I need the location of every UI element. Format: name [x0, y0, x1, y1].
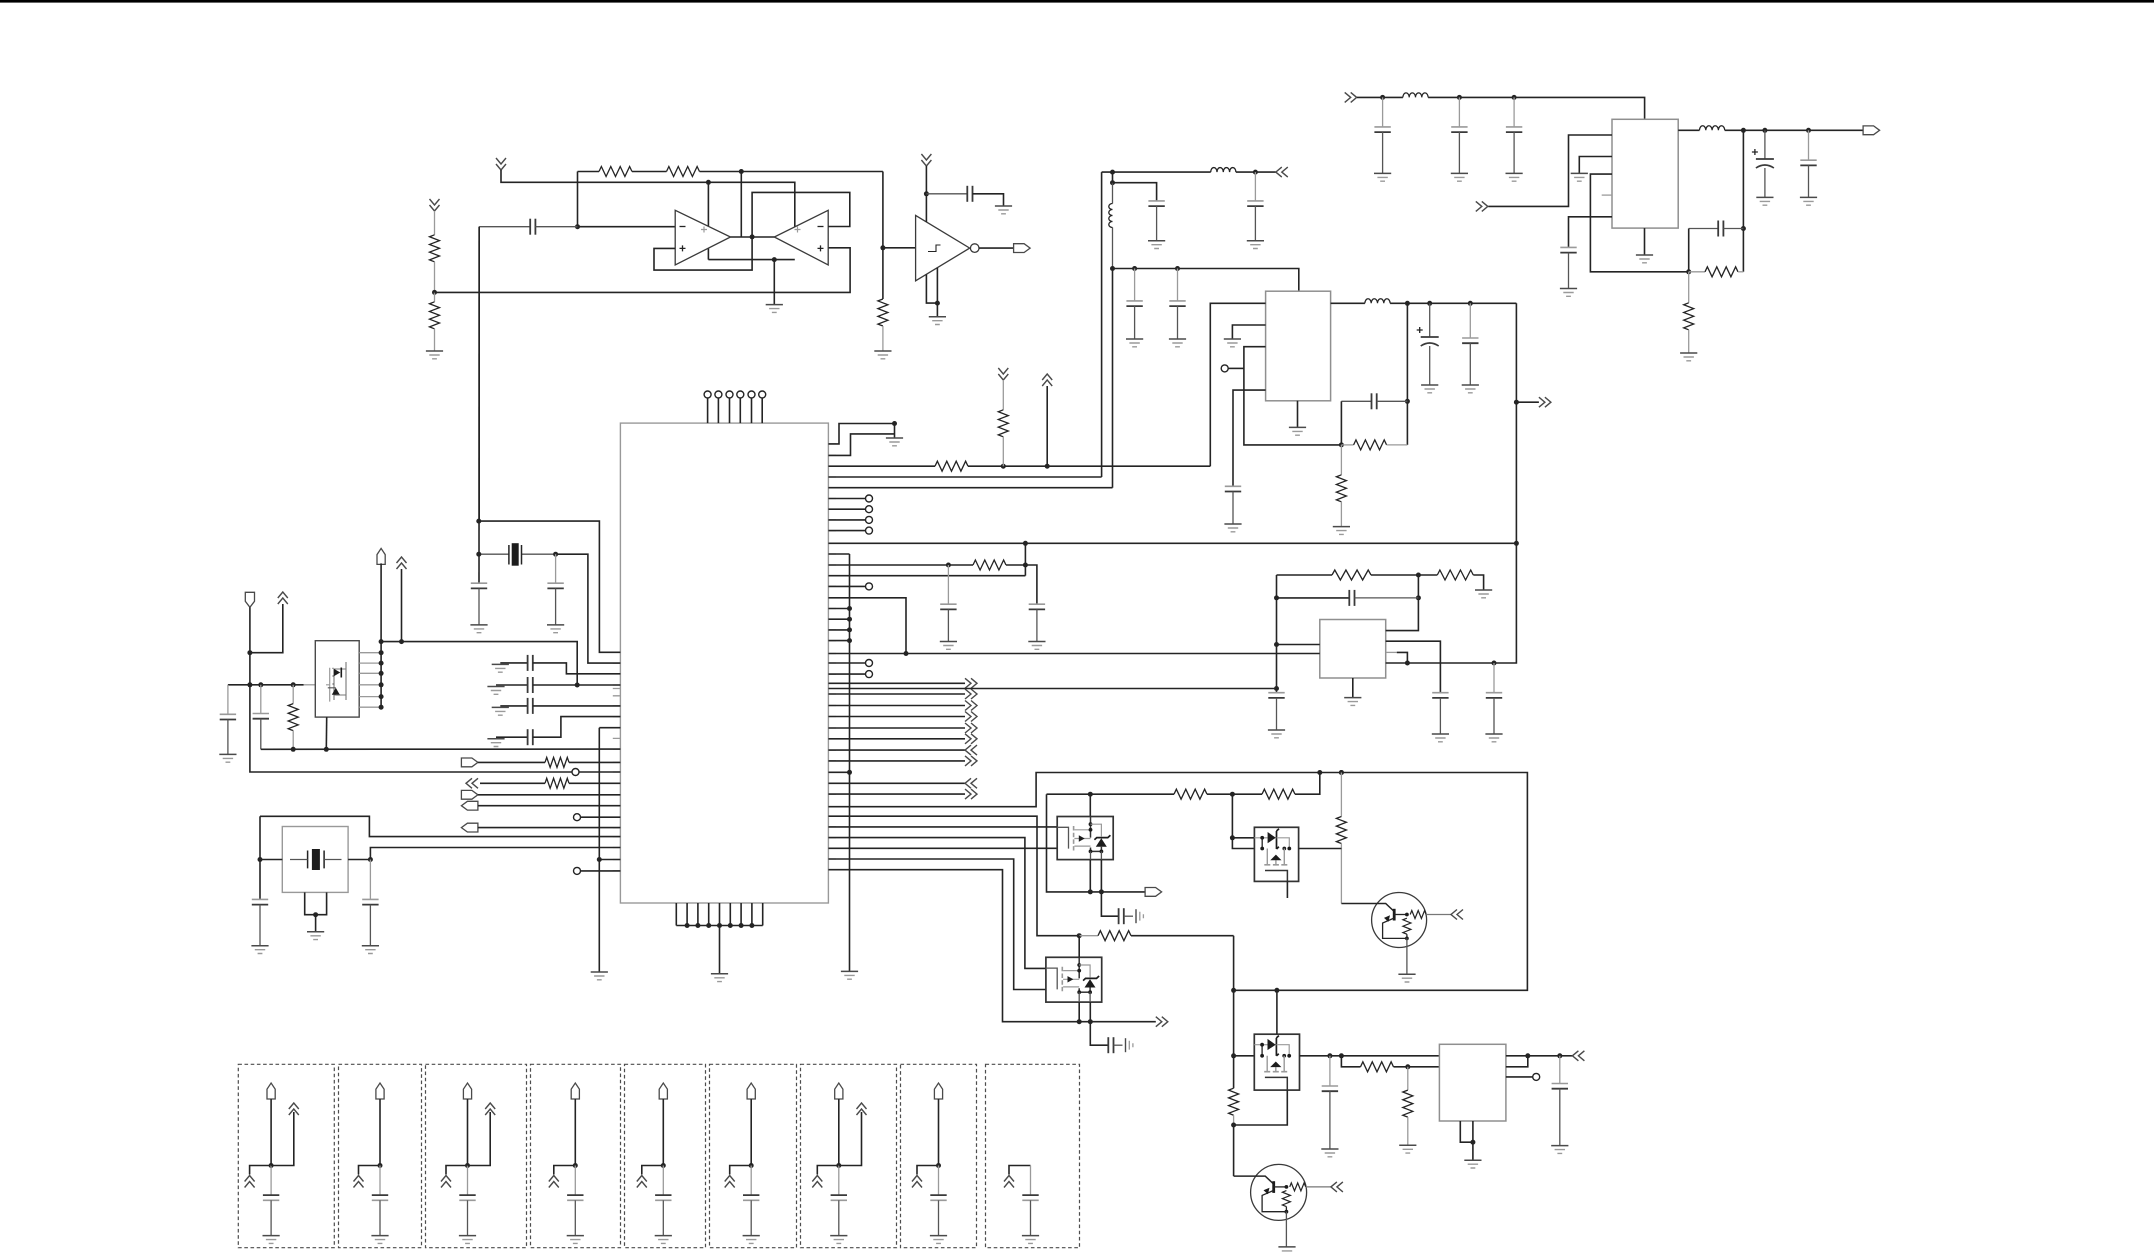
node mid rail [1110, 266, 1115, 271]
resistor R18 [292, 685, 294, 704]
resistor R4 (divider bottom) [434, 292, 436, 301]
connector chevron out 728 [965, 723, 977, 733]
node bus junction 608 [847, 606, 852, 611]
ground (C32) [219, 753, 236, 755]
node divider mid [432, 290, 437, 295]
node supply tap junction [706, 180, 711, 185]
wire U6 PG [1506, 1076, 1533, 1078]
node XTAL1 right [553, 552, 558, 557]
wire cell 5 stem [662, 1099, 664, 1166]
wire U2 signal chevron-in 783 [828, 782, 965, 784]
node Q3 feed junction [1230, 835, 1235, 840]
wire U2 top pin 5 [751, 398, 753, 423]
pin stubs U2 right side [828, 444, 836, 870]
capacitor cell 9 [1030, 1166, 1032, 1196]
connector chevron 1021 [1156, 1017, 1168, 1027]
resistor R21 [1340, 773, 1342, 817]
node Y2 case [313, 912, 318, 917]
decoupling cell box 3 (dashed) [426, 1064, 527, 1247]
ground (U3) [1289, 426, 1306, 428]
node gate row junctions [247, 682, 252, 687]
power symbol (Q1 area) [278, 592, 288, 604]
wire U2 top pin 2 [717, 398, 719, 423]
wire Q7 source join [1234, 1090, 1288, 1125]
node U3 VOUT junctions [1405, 301, 1410, 306]
pin U2 top 3 (open circle) [726, 391, 733, 398]
wire bypass row A [500, 662, 527, 664]
node reset row junctions [1001, 464, 1006, 469]
wire U2 signal chevron 683 [828, 682, 965, 684]
ground (Y2 case) [307, 931, 324, 933]
connector pin cell 7 [835, 1083, 843, 1099]
wire C15 to gnd [1429, 346, 1431, 385]
resistor R23 [1361, 1062, 1394, 1072]
connector VIN (chevron in) [1345, 92, 1357, 102]
wire cell 1 stem [270, 1099, 272, 1166]
node R23/R24 junction [1405, 1064, 1410, 1069]
wire Q2 top feed [1089, 794, 1091, 816]
wire R17 to U2 [569, 782, 620, 784]
wire VBUS stem + bus [380, 563, 382, 707]
node B junction (cap to opamp input) [575, 224, 580, 229]
wire U3 pin2 to ground [1232, 325, 1265, 339]
connector pin cell 8 [934, 1083, 942, 1099]
ground (C21) [1268, 729, 1285, 731]
wire R14 right [1006, 564, 1025, 566]
wire cell 9 power branch [1009, 1166, 1031, 1175]
wire U5 GND pin [1644, 228, 1646, 255]
node bus 772 [847, 770, 852, 775]
wire R2 to node A [700, 171, 883, 173]
wire U5 feedback divider vertical [1742, 130, 1744, 271]
transistor Q6 (digital NPN) [1251, 1164, 1307, 1220]
wire U2 top pin 1 [707, 398, 709, 423]
wire cell 1 power branch [250, 1166, 272, 1175]
wire U4 left pin1 [1277, 644, 1320, 646]
wire U2 pin R2 step [828, 434, 894, 456]
wire row B to U2 [533, 684, 621, 686]
power symbol +3V3A (left divider) [430, 199, 440, 211]
wire U2 bottom pins [676, 903, 762, 926]
wire connector bus to row B [381, 642, 577, 685]
connector NRST (arrow) [461, 823, 478, 832]
wire Y2 left pin [260, 859, 282, 861]
power symbol (VBUS) [397, 557, 407, 569]
ground (C18) [1485, 733, 1502, 735]
wire R14 node vertical [1024, 543, 1026, 575]
wire U5 pin4 to C6 [1569, 217, 1613, 248]
node Q1 bus junctions [379, 650, 384, 655]
power symbol cell 5 [637, 1176, 647, 1188]
wire U5 SW output [1678, 129, 1699, 131]
decoupling cell box 2 (dashed) [339, 1064, 422, 1247]
wire cell 7 aux branch [839, 1112, 862, 1166]
resistor R17 [545, 778, 569, 788]
wire U2 pin 870 staircase [828, 870, 1155, 1022]
node Q2 bottom junctions [1088, 889, 1093, 894]
connector pin cell 1 [267, 1083, 275, 1099]
node R-step junction [892, 421, 897, 426]
wire BOOT0 stem [249, 607, 251, 685]
node FB top [1741, 226, 1746, 231]
pin testpoint TP1 [572, 769, 579, 776]
wire row A to U2 [533, 663, 621, 674]
wire U6 out to chevron [1560, 1055, 1573, 1057]
wire TX row [478, 805, 621, 807]
wire VIN rail [1357, 96, 1403, 98]
connector RX (arrow) [461, 790, 478, 799]
wire U2 pin 859 to bus [599, 859, 620, 861]
wire U2 pin 641 to bus [828, 640, 849, 642]
node cell 3 [465, 1163, 470, 1168]
wire C2 to ground [973, 194, 1004, 206]
capacitor C30 [252, 898, 268, 900]
connector Q5 (chevron) [1451, 910, 1463, 920]
ground (C31) [362, 945, 379, 947]
inductor L3 [1211, 168, 1236, 173]
connector pin cell 4 [571, 1083, 579, 1099]
resistor R10 [1332, 570, 1371, 580]
wire gate row R19-R20 [1047, 793, 1175, 795]
decoupling cell box 1 (dashed) [238, 1064, 334, 1247]
wire Q3 pin1 feed [1232, 837, 1254, 839]
wire sense row [1277, 574, 1333, 576]
resistor R5 (Schmitt pulldown) [878, 299, 888, 326]
wire NRST row [478, 827, 621, 829]
ground (C14) [1224, 523, 1241, 525]
wire U2 pin open 663 [828, 662, 865, 664]
wire crystal left vertical [478, 227, 480, 584]
power symbol cell 2 [354, 1176, 364, 1188]
resistor R6 (feedback) [1689, 271, 1705, 273]
node Schmitt input junction [880, 245, 885, 250]
capacitor C2 (Schmitt bypass) [926, 193, 967, 195]
capacitor C13 [1177, 269, 1179, 301]
wire U2 pin 827 to Q2 [828, 826, 1057, 828]
wire U2 pin open 520 [828, 519, 865, 521]
ground (right bus) [841, 970, 858, 972]
ground (C37) [1551, 1145, 1568, 1147]
node U3 FB cap top [1405, 399, 1410, 404]
decoupling cell box 9 (dashed) [986, 1064, 1080, 1247]
node U3 FB junction [1339, 442, 1344, 447]
capacitor C3 [1382, 97, 1384, 127]
wire Q3 drain to R21 node [1299, 848, 1342, 850]
resistor R12 [935, 461, 968, 471]
ground (C34, sideways) [1135, 909, 1137, 923]
wire U2 pin R4 long [828, 487, 1112, 489]
wire U2 pin 848 to Q2 [828, 847, 1057, 849]
connector U6 out (chevron) [1572, 1051, 1584, 1061]
ground (C36) [1321, 1148, 1338, 1150]
power symbol cell 1 aux [289, 1103, 299, 1115]
capacitor C33 [260, 685, 262, 714]
capacitor C7 (polarized) [1756, 158, 1774, 160]
pin testpoint TP2 [574, 814, 581, 821]
decoupling cell box 5 (dashed) [625, 1064, 706, 1247]
connector chevron out 739 [965, 734, 977, 744]
connector chevron out 706 [965, 701, 977, 711]
wire Q7 out row [1300, 1055, 1440, 1057]
node osc row left [946, 563, 951, 568]
wire Q2 bottom pins [1090, 860, 1101, 892]
decoupling cell box 7 (dashed) [801, 1064, 897, 1247]
ground (Schmitt) [929, 316, 946, 318]
wire feedback top rail [578, 171, 600, 173]
node R18 bottom [291, 747, 296, 752]
capacitor C34 [1118, 908, 1120, 924]
wire Q1 gate row [228, 684, 304, 686]
wire cell 4 power branch [554, 1166, 576, 1175]
ground cell 9 [1022, 1235, 1039, 1237]
node cell 1 [269, 1163, 274, 1168]
ground cell 5 [655, 1235, 672, 1237]
wire U3 PG [1228, 367, 1244, 369]
wire VBUS power branch [401, 569, 403, 642]
pin U2 top 6 (open circle) [759, 391, 766, 398]
wire cap row [1277, 597, 1350, 599]
node U4 pinA junctions [1416, 573, 1421, 578]
wire bypass row B [496, 684, 528, 686]
node 598 junction [904, 651, 909, 656]
node ferrite tap [1110, 180, 1115, 185]
wire left ground bus [598, 728, 600, 972]
capacitor C17 (U3 feedback) [1341, 400, 1371, 402]
wire cell 3 aux branch [468, 1112, 491, 1166]
node 935 junction [1077, 933, 1082, 938]
wire op-amp U1 supply tap [707, 182, 709, 259]
connector SWCLK (chevron) [466, 778, 478, 788]
ground cell 8 [930, 1235, 947, 1237]
power symbol cell 8 [912, 1176, 922, 1188]
connector VBUS (tag up) [377, 548, 385, 564]
regulator U3 [1266, 291, 1331, 401]
wire U4 pinB to C19 [1386, 641, 1441, 693]
capacitor cell 8 [938, 1166, 940, 1196]
wire U2 pin 619 to bus [828, 618, 849, 620]
ground (U2 exposed pad) [711, 973, 728, 975]
connector chevron in 783 [965, 778, 977, 788]
capacitor C31 [369, 860, 371, 900]
wire U2 reset row [828, 465, 935, 467]
node bus junction 619 [847, 617, 852, 622]
pin testpoint TP3 [574, 867, 581, 874]
resistor R1 [599, 167, 632, 177]
capacitor C21 [1268, 692, 1284, 694]
connector pin cell 2 [376, 1083, 384, 1099]
capacitor C22 [1029, 603, 1045, 605]
node crystal left tap [476, 552, 481, 557]
wire U1 output to U2 output node [731, 236, 775, 238]
wire U2 pin open 531 [828, 530, 865, 532]
node left bus junction [597, 857, 602, 862]
wire Schmitt output [979, 247, 1014, 249]
wire R19-R20 mid [1207, 793, 1262, 795]
wire Schmitt supply [925, 166, 927, 222]
wire U3 SW out [1331, 302, 1365, 304]
wire Q4 top feed [1078, 936, 1080, 958]
wire cell 5 power branch [642, 1166, 664, 1175]
wire R14 node to C22 [1025, 565, 1037, 604]
inductor L1 [1403, 93, 1428, 98]
transistor Q1 (dual MOSFET) [315, 641, 359, 717]
wire Y2 to U2 [370, 848, 620, 860]
wire Q1 right pins [359, 653, 381, 708]
wire VOUT rail [1725, 129, 1863, 131]
node cell 4 [573, 1163, 578, 1168]
wire BOOT row [250, 685, 572, 772]
power symbol cell 7 aux [857, 1103, 867, 1115]
wire U2 pin R1 step [828, 424, 894, 444]
wire U2 to U4 row [828, 653, 1319, 655]
wire Schmitt ground loop [926, 268, 937, 317]
wire U2 signal chevron 716 [828, 716, 965, 718]
ground (R5) [874, 350, 891, 352]
node Y2 right [368, 857, 373, 862]
power symbol cell 4 [549, 1176, 559, 1188]
ground (U6) [1464, 1159, 1481, 1161]
node cell 6 [749, 1163, 754, 1168]
wire U2 bottom ground bus [676, 925, 762, 927]
wire U2 osc row [828, 564, 973, 566]
ground (row A) [492, 663, 509, 665]
wire power branch [250, 604, 283, 653]
node bus junction 630 [847, 627, 852, 632]
ground (row B) [487, 686, 504, 688]
wire Q3 gate feed [1232, 794, 1254, 848]
pin stub U5 NC [1602, 194, 1612, 196]
power symbol +3V3A (Schmitt) [921, 154, 931, 166]
wire 1V8 rail tall vertical [1407, 303, 1516, 663]
ground (row C) [492, 706, 509, 708]
wire SWCLK row [480, 782, 545, 784]
capacitor C19 [1432, 692, 1448, 694]
node BOOT0 junction [247, 650, 252, 655]
power symbol cell 3 aux [485, 1103, 495, 1115]
wire U5 EN pin to chevron [1488, 135, 1612, 206]
wire crystal Y1 leads [479, 553, 556, 555]
wire U2 top pin 4 [739, 398, 741, 423]
node sense verticals [1274, 595, 1279, 600]
ground (C12) [1126, 338, 1143, 340]
ground (C4) [1451, 172, 1468, 174]
power symbol (up arrow) [1042, 374, 1052, 386]
connector +1V8 (chevron) [1539, 397, 1551, 407]
wire cell 2 stem [379, 1099, 381, 1166]
node enclosure junctions [1317, 770, 1322, 775]
connector chevron out 761 [965, 756, 977, 766]
wire Y2 right pin [348, 859, 370, 861]
pin U2 open circle 674 [866, 671, 873, 678]
capacitor C9 (feedback) [1689, 228, 1719, 230]
wire gate L-branch [1047, 794, 1146, 892]
resistor R2 [667, 167, 700, 177]
pin U2 top 4 (open circle) [737, 391, 744, 398]
connector chevron out 794 [965, 789, 977, 799]
wire +3V3A to comparator network [501, 170, 795, 227]
wire node A rail down to Schmitt input [882, 172, 884, 300]
pin U2 open circle 531 [866, 527, 873, 534]
wire R1 to R2 [632, 171, 667, 173]
node U6 gnd junction [1470, 1140, 1475, 1145]
ground (R7) [1680, 352, 1697, 354]
node VIN rail junctions [1380, 95, 1385, 100]
wire cell 6 power branch [730, 1166, 752, 1175]
pin U6 PG (open circle) [1533, 1073, 1540, 1080]
resistor R14 [973, 560, 1006, 570]
connector chevron out 694 [965, 689, 977, 699]
ground (step pins) [886, 437, 903, 439]
resistor R7 (FB lower) [1688, 272, 1690, 303]
node mid rail junction [772, 257, 777, 262]
capacitor C5 [1513, 97, 1515, 127]
op-amp U1 [675, 210, 730, 265]
wire L1 to U5 [1428, 97, 1645, 119]
ground (C24) [470, 624, 487, 626]
wire R11 to ground [1473, 575, 1483, 590]
wire U6 sense corner [1506, 1056, 1528, 1067]
wire U2 pin 727 to left bus [599, 727, 620, 729]
resistor R9 (U3 FB lower) [1340, 445, 1342, 475]
inductor L2 [1700, 126, 1725, 131]
capacitor C36 [1329, 1056, 1331, 1086]
ground (C30) [251, 945, 268, 947]
wire U2 pin open 509 [828, 508, 865, 510]
wire U2 signal chevron 706 [828, 705, 965, 707]
pin U2 open circle 663 [866, 660, 873, 667]
ground (left bus) [591, 971, 608, 973]
wire U2 pin open 586 [828, 585, 865, 587]
wire C1 node to crystal circuit (long vertical) [478, 227, 480, 521]
ground (row D) [487, 738, 504, 740]
power symbol cell 1 [245, 1176, 255, 1188]
node SWD junction [1023, 541, 1028, 546]
crystal module Y2 [282, 827, 348, 893]
wire Q4 bottom pins [1079, 1002, 1090, 1022]
capacitor C32 [227, 685, 229, 715]
capacitor C20 [1348, 590, 1350, 606]
wire bypass row C [500, 705, 527, 707]
decoupling cell box 8 (dashed) [901, 1064, 977, 1247]
wire cell 7 power branch [817, 1166, 839, 1175]
node row B junction [575, 683, 580, 688]
ground (C19) [1432, 733, 1449, 735]
wire 1V8 chevron tap [1516, 401, 1539, 403]
capacitor C18 [1493, 663, 1495, 693]
connector EN (chevron) [1476, 201, 1488, 211]
power symbol (reset pullup) [998, 368, 1008, 380]
ground (Q6) [1278, 1246, 1295, 1248]
wire C7 to ground [1764, 168, 1766, 197]
wire FB corner [1688, 229, 1690, 272]
wire Q3 source stub [1286, 881, 1288, 898]
wire U2 pin 772 to bus [828, 771, 849, 773]
wire U2 - input loop [752, 192, 850, 237]
wire U2 pin 630 to bus [828, 629, 849, 631]
wire ferrite leads [1112, 183, 1114, 269]
Schmitt trigger U9 [916, 215, 970, 280]
power symbol cell 3 [441, 1176, 451, 1188]
wire ferrite branch [1112, 172, 1114, 183]
wire U2 top pin 3 [729, 398, 731, 423]
connector SWDIO (arrow) [461, 758, 478, 767]
node bottom bus junctions [685, 923, 690, 928]
ground (R24) [1399, 1144, 1416, 1146]
capacitor cell 2 [379, 1166, 381, 1196]
regulator U5 [1612, 119, 1678, 228]
connector pin cell 6 [747, 1083, 755, 1099]
node Y2 left [258, 857, 263, 862]
